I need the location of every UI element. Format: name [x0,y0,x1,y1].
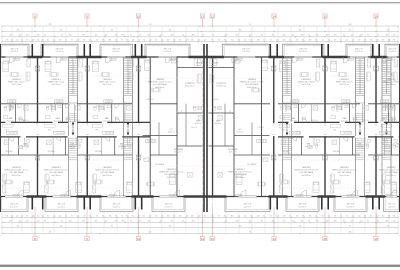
svg-text:DE LUAT MASA: DE LUAT MASA [153,83,167,86]
shaft hatch upper [85,66,89,71]
svg-text:BUCATARIE: BUCATARIE [228,148,238,151]
unit 3 wc 2 [129,144,132,145]
balcony top 2 [41,44,78,56]
svg-text:BUCATARIE: BUCATARIE [174,148,184,151]
unit 5 bed 2 [236,174,242,185]
svg-text:S=4.10 m²: S=4.10 m² [299,50,308,53]
sheet bottom border [0,265,400,267]
svg-text:12: 12 [201,14,205,18]
party core 4 bottom piers [270,197,272,210]
shaft hatch upper [374,66,378,71]
svg-text:S=4.10 m²: S=4.10 m² [55,50,64,53]
svg-text:BAIE: BAIE [358,143,363,146]
wide unit 5 central partition [233,57,235,197]
unit 1 lower sofa [3,174,7,183]
svg-text:BAIE: BAIE [343,117,348,120]
unit 3 hall mat [92,124,103,127]
unit 4 lower shower [188,173,193,178]
unit 6 hall mat [279,124,290,127]
unit 4 lower wardrobe [144,158,149,162]
svg-text:285: 285 [167,40,170,42]
stair treads upper 4 [356,113,365,115]
svg-text:90: 90 [26,216,28,218]
unit 2 wc 2 [78,144,81,145]
top facade wall [0,56,400,58]
core spine threshold ticks [36,124,38,126]
svg-text:120: 120 [155,40,158,42]
unit 3 sink 2 [121,146,125,149]
unit 1 closet partitions [9,104,11,111]
balcony bottom 8 [384,198,400,212]
unit 5 hall door [230,110,234,114]
unit 3 corridor door gap upper [102,122,108,124]
svg-text:90: 90 [308,221,310,223]
svg-text:120: 120 [204,40,207,42]
unit 6 lower sofa [280,174,284,183]
unit 4 hall door [177,110,181,114]
svg-text:90: 90 [308,35,310,37]
unit 7 lower partition [352,137,354,155]
section marker 15 top [323,14,327,18]
svg-text:385: 385 [122,35,125,37]
unit 8 balcony door top [382,57,388,63]
svg-text:120: 120 [26,221,29,223]
unit 7 kitchen in hall band [341,131,352,134]
svg-text:CAMERA 2: CAMERA 2 [340,166,349,169]
party core 3 top piers [135,44,137,57]
unit 6 entry door upper [303,118,307,122]
svg-text:90: 90 [111,226,113,228]
unit 8 upper dashes [382,75,397,77]
unit 2 lower wardrobe [45,185,48,193]
svg-text:285: 285 [272,35,275,37]
svg-text:115: 115 [95,35,98,37]
stair strip 2 walls [123,57,125,197]
unit 8 balcony door bottom [390,191,396,197]
bottom facade wall [0,196,400,198]
svg-text:90: 90 [261,221,263,223]
balcony top 3 [100,44,133,56]
corridor upper wall [0,121,68,123]
stair flight upper 2 [124,58,133,60]
witness lines bottom [1,212,3,233]
svg-text:240: 240 [37,35,40,37]
svg-text:VESTIBUL: VESTIBUL [5,151,13,153]
unit 6 wc [281,106,284,107]
party core 5 spine [324,57,325,197]
svg-text:90: 90 [211,40,213,42]
unit 4 west room wall [149,57,151,197]
svg-text:S=4.10 m²: S=4.10 m² [355,50,364,53]
unit 2 lower radiator [60,194,67,196]
unit 1 lower radiator [13,194,20,196]
unit 6 corridor door gap lower [304,136,310,138]
svg-text:285: 285 [334,221,337,223]
svg-text:385: 385 [109,40,112,42]
unit 7 lower radiator [347,194,354,196]
balcony top 8 [385,44,400,56]
svg-text:SPATIU DE LOCUIT CU LOC: SPATIU DE LOCUIT CU LOC [228,171,253,174]
svg-text:DE LUAT MASA: DE LUAT MASA [338,171,352,174]
stair strip 5 walls [381,57,383,197]
party core 5 top piers [321,44,323,57]
unit 1 sink [9,107,13,110]
svg-text:115: 115 [343,221,346,223]
unit 7 hall mat [330,124,341,127]
unit 8 closet partitions [385,104,387,111]
unit 3 upper table [103,73,108,77]
svg-text:130: 130 [83,216,86,218]
unit 2 bath door [66,104,70,108]
svg-text:SPATIU DE LOCUIT CU LOC: SPATIU DE LOCUIT CU LOC [379,169,400,172]
core spine threshold ticks [273,124,275,126]
svg-text:60: 60 [139,35,141,37]
dim line top row1 [2,25,398,27]
svg-text:1.20/2.10: 1.20/2.10 [258,127,265,129]
svg-text:BALCON: BALCON [243,47,251,50]
unit 5 east room wall [261,57,263,197]
stair arrow down 3 [286,133,289,136]
unit 1 bed [3,61,9,72]
svg-text:BAIE: BAIE [56,117,61,120]
svg-text:S=4.10 m²: S=4.10 m² [10,50,19,53]
svg-text:VESTIBUL: VESTIBUL [384,151,392,153]
unit 3 bath extra fixtures [93,116,98,119]
svg-text:BAIE: BAIE [396,143,400,146]
svg-text:S=12.16 m²: S=12.16 m² [216,85,226,88]
top facade thick segments [28,56,43,59]
unit 5 radiator top [235,58,242,60]
svg-text:1.20/2.10: 1.20/2.10 [191,127,198,129]
svg-text:120: 120 [26,35,29,37]
svg-text:285: 285 [17,226,20,228]
svg-text:360: 360 [349,24,352,26]
unit 6 balcony door bottom [301,191,307,197]
unit 5 west wall [212,57,213,197]
svg-text:S=4.10 m²: S=4.10 m² [388,205,397,208]
svg-text:90: 90 [111,30,113,32]
unit 6 corridor door gap upper [289,122,295,124]
svg-text:95: 95 [263,40,265,42]
unit 3 sink [99,107,103,110]
stair landing 5 [382,96,391,104]
svg-text:360: 360 [37,216,40,218]
svg-text:115: 115 [343,35,346,37]
stair flight upper 5 [382,58,391,60]
unit 7 upper sofa [367,72,371,81]
svg-text:115: 115 [244,40,247,42]
unit 2 closet partitions [55,104,57,111]
svg-text:115: 115 [47,40,50,42]
unit 4 sink [197,107,201,110]
stair landing 2 [124,96,133,104]
unit 5 kitchen [257,140,267,143]
unit 8 bath extra fixtures [382,116,387,119]
section marker 14 top [272,14,276,18]
svg-text:1.20/2.10: 1.20/2.10 [6,106,13,108]
svg-text:120: 120 [283,35,286,37]
svg-text:95: 95 [349,30,351,32]
svg-text:BALCON: BALCON [113,203,121,206]
svg-text:60: 60 [139,221,141,223]
unit 7 shower [364,106,369,111]
unit 6 lower dashes [280,159,319,161]
dim line top row2 [2,31,398,33]
section marker 16 top [374,14,378,18]
svg-text:SPATIU DE LOCUIT: SPATIU DE LOCUIT [8,81,26,84]
central double party wall left leaf [203,44,205,212]
section line 9 stubs [86,19,88,27]
stair handrail 2 [127,59,129,94]
unit 5 lower shower [218,173,223,178]
svg-text:385: 385 [192,35,195,37]
svg-text:0.90/2.10: 0.90/2.10 [311,120,318,122]
unit 3 lower partition [114,137,116,155]
svg-text:S=4.10 m²: S=4.10 m² [57,205,66,208]
section marker 10 bottom [136,236,140,240]
svg-text:90: 90 [44,221,46,223]
svg-text:115: 115 [19,35,22,37]
unit 5 dashes [210,77,267,79]
stair handrail 3 [286,59,288,94]
unit 6 closet partitions [290,104,292,111]
shaft hatch lower [374,155,378,160]
stair landing 3 [283,96,292,104]
svg-text:HOL: HOL [6,130,9,132]
unit 1 bath door [18,104,22,108]
svg-text:130: 130 [82,35,85,37]
central double party wall right leaf [206,44,208,212]
svg-text:120: 120 [283,221,286,223]
svg-text:360: 360 [169,30,172,32]
shaft hatch upper [136,66,140,71]
section marker 13 bottom [210,236,214,240]
svg-text:8: 8 [34,237,36,241]
lower interior wall [0,154,68,156]
svg-text:S=7.10 m²: S=7.10 m² [175,151,183,154]
unit 3 bed 2 [127,182,133,193]
balcony top 5 [223,44,271,56]
svg-text:415: 415 [171,221,174,223]
party core 4 spine [273,57,274,197]
unit 3 lower radiator [109,194,116,196]
stair handrail 4 [359,59,361,94]
unit 6 upper dashes [280,75,319,77]
unit 4 bed [145,60,151,71]
svg-text:60: 60 [322,40,324,42]
unit 1 upper table [12,73,17,77]
svg-text:S=4.2 m²: S=4.2 m² [356,145,363,148]
svg-text:285: 285 [272,221,275,223]
stair treads lower 3 [283,137,292,139]
stair arrow down 4 [359,133,362,136]
svg-text:10: 10 [137,237,141,241]
svg-text:0.90/2.10: 0.90/2.10 [212,99,219,101]
svg-text:SPATIU DE LOCUIT: SPATIU DE LOCUIT [298,81,316,84]
svg-text:240: 240 [360,35,363,37]
svg-text:95: 95 [377,221,379,223]
unit 2 lower closet partitions [52,137,54,155]
unit 3 upper wardrobe [130,59,133,67]
bottom facade thick segments [27,195,47,198]
unit 1 upper kitchen counter [7,100,16,103]
unit 6 balcony door top [293,57,299,63]
unit 3 upper sofa [129,72,133,81]
unit 4 bath partition [185,104,187,146]
unit 1 sink 2 [18,146,22,149]
svg-text:VESTIBUL: VESTIBUL [48,151,56,153]
unit 7 lower table [333,180,338,184]
unit 5 storage boxes [210,59,213,66]
svg-text:CAMERA 2: CAMERA 2 [103,166,112,169]
unit 6 bath extra fixtures [280,116,285,119]
svg-text:360: 360 [326,35,329,37]
section marker 12 top [200,14,204,18]
top facade windows [6,56,24,58]
svg-text:285: 285 [49,24,52,26]
unit 8 lower wardrobe [381,185,384,193]
unit 8 lower radiator [386,194,393,196]
unit 2 lower partition [65,137,67,155]
unit 3 corridor door gap lower [117,136,123,138]
svg-text:360: 360 [231,216,234,218]
svg-text:DE LUAT MASA: DE LUAT MASA [245,83,259,86]
core spine threshold ticks [375,124,377,126]
stair landing 1 [69,96,78,104]
unit 3 upper dashes [93,75,133,77]
svg-text:BALCON: BALCON [164,47,172,50]
svg-text:BAIE: BAIE [8,117,13,120]
party core 2 top piers [84,44,86,57]
svg-text:S=4.10 m²: S=4.10 m² [242,50,251,53]
unit 4 dashes [145,77,201,79]
svg-text:CAMERA 2: CAMERA 2 [302,166,311,169]
unit 6 partition upper-mid [298,104,300,123]
svg-text:205: 205 [132,40,135,42]
unit 6 upper radiator [296,58,303,60]
svg-text:S=21.60 m²: S=21.60 m² [386,174,396,177]
party core 3 bottom piers [135,197,137,210]
stair treads upper 1 [69,113,78,115]
svg-text:BAIE: BAIE [120,143,125,146]
unit 5 balcony door top [232,57,238,63]
stair arrow up 4 [359,122,362,125]
svg-text:130: 130 [393,35,396,37]
svg-text:1.20/2.10: 1.20/2.10 [334,106,341,108]
svg-text:205: 205 [236,221,239,223]
unit 6 shower 2 [281,140,286,145]
svg-text:130: 130 [393,221,396,223]
dim line bot row2 [2,222,398,224]
unit 7 upper dashes [331,75,370,77]
svg-text:285: 285 [191,40,194,42]
unit 5 shower [218,116,223,121]
svg-text:120: 120 [155,216,158,218]
svg-text:120: 120 [60,226,63,228]
svg-text:S=4.10 m²: S=4.10 m² [243,205,252,208]
svg-text:95: 95 [270,40,272,42]
svg-text:S=7.10 m²: S=7.10 m² [229,151,237,154]
section marker 9 bottom [85,236,89,240]
unit 2 entry door upper [67,118,71,122]
core spine corridor gap [86,123,88,136]
svg-text:285: 285 [49,232,52,234]
unit 8 upper table [386,73,391,77]
unit 8 lower partition [390,137,392,155]
svg-text:SPATIU DE LOCUIT: SPATIU DE LOCUIT [383,81,400,84]
unit 3 lower closet partitions [100,137,102,155]
svg-text:385: 385 [309,216,312,218]
svg-text:240: 240 [299,30,302,32]
svg-text:285: 285 [6,216,9,218]
svg-text:60: 60 [121,40,123,42]
svg-text:S=4.10 m²: S=4.10 m² [298,205,307,208]
stair handrail 1 [72,59,74,94]
svg-text:90: 90 [182,221,184,223]
svg-text:S=17.35 m²: S=17.35 m² [340,83,350,86]
unit 3 lower sofa [93,174,97,183]
unit 1 bed 2 [24,182,30,193]
svg-text:95: 95 [270,216,272,218]
sheet top border [0,2,400,3]
unit 1 lower table [6,180,11,184]
svg-text:S=4.9 m²: S=4.9 m² [214,122,221,125]
stair arrow up 5 [385,122,388,125]
svg-text:BALCON: BALCON [56,47,64,50]
svg-text:360: 360 [386,35,389,37]
svg-text:95: 95 [71,216,73,218]
unit 8 entry door lower [382,137,386,141]
svg-text:115: 115 [244,216,247,218]
unit 8 wc [383,106,386,107]
unit 1 upper sofa [26,72,30,81]
svg-text:120: 120 [16,40,19,42]
svg-text:S=21.60 m²: S=21.60 m² [12,174,22,177]
svg-text:S=17.35 m²: S=17.35 m² [103,83,113,86]
unit 4 kitchen [146,140,156,143]
unit 5 table [253,88,258,92]
unit 2 kitchen in hall band [54,131,65,134]
stair arrow up 3 [286,122,289,125]
unit 1 shower [24,106,29,111]
core spine threshold ticks [86,124,88,126]
svg-text:S=4.10 m²: S=4.10 m² [164,205,173,208]
svg-text:415: 415 [296,216,299,218]
unit 8 bath door [390,104,394,108]
svg-text:DE LUAT MASA: DE LUAT MASA [300,171,314,174]
unit 1 upper wardrobe [27,59,30,67]
svg-text:120: 120 [292,221,295,223]
svg-text:CAMERA 2: CAMERA 2 [235,168,244,171]
svg-text:385: 385 [122,221,125,223]
svg-text:90: 90 [143,216,145,218]
unit 1 lower wardrobe [3,185,6,193]
svg-text:95: 95 [71,40,73,42]
stair arrow down 2 [127,133,130,136]
svg-text:285: 285 [301,221,304,223]
unit 3 balcony door bottom [114,191,120,197]
unit 8 bed 2 [391,182,397,193]
svg-text:S=4.10 m²: S=4.10 m² [163,50,172,53]
svg-text:120: 120 [292,35,295,37]
party core 6 spine [375,57,376,197]
svg-text:CAMERA 1: CAMERA 1 [340,78,349,81]
svg-text:HOL: HOL [333,130,336,132]
svg-text:350: 350 [382,40,385,42]
svg-text:60: 60 [315,216,317,218]
svg-text:S=4.9 m²: S=4.9 m² [195,122,202,125]
svg-text:DE LUAT MASA: DE LUAT MASA [384,171,398,174]
